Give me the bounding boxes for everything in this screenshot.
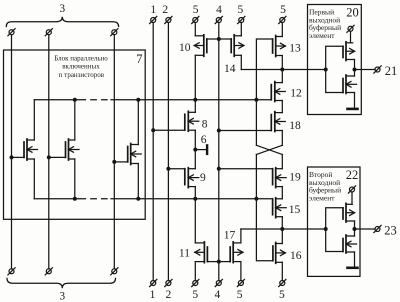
junction cross wire on drain bus: [254, 98, 258, 102]
junction T2 gate: [47, 155, 51, 159]
wire VT17 gate lead to net 4: [219, 261, 230, 263]
terminal 4 top: [215, 16, 222, 23]
transistor VT9: [185, 168, 199, 188]
wire net 4 rail: [218, 23, 220, 281]
wire VT16 source drop to terminal: [281, 262, 283, 280]
terminal 1 top: [150, 16, 157, 23]
svg-text:5: 5: [279, 289, 285, 301]
svg-text:23: 23: [384, 224, 397, 238]
block 7 box (Блок параллельно включенных n транзисторов): [4, 50, 146, 219]
wire VT13 gate lead to cross wire: [256, 39, 272, 145]
terminal 3f bottom: [111, 268, 118, 275]
svg-text:5: 5: [237, 289, 243, 301]
svg-text:11: 11: [179, 247, 190, 259]
buffer box 20 (Первый выходной буферный элемент): [308, 5, 362, 115]
svg-text:16: 16: [290, 250, 302, 262]
wire VT8 drain riser: [194, 100, 196, 113]
terminal 4 bottom: [215, 279, 222, 286]
svg-text:10: 10: [179, 42, 191, 54]
wire VT15 source down to node B: [281, 217, 283, 229]
wire T2 drain riser: [74, 100, 76, 140]
junction T3 source on bus: [136, 197, 140, 201]
buffer box 22 (Второй выходной буферный элемент): [308, 167, 361, 276]
terminal 2 bottom: [165, 279, 172, 286]
wire gate net a (rail x=11.5): [11, 35, 13, 269]
terminal 2 top: [165, 16, 172, 23]
transistor VT14: [231, 35, 244, 57]
terminal 3e bottom: [45, 268, 52, 275]
wire VT8 source to VT9 drain: [194, 130, 196, 169]
svg-text:элемент: элемент: [309, 193, 335, 202]
junction T3 gate: [112, 160, 116, 164]
svg-text:20: 20: [346, 5, 359, 19]
junction T2 source on bus: [73, 197, 77, 201]
terminal 23: [374, 225, 381, 232]
svg-text:12: 12: [290, 87, 302, 99]
wire VT17 drain riser to node B: [240, 229, 242, 243]
junction T2 drain on bus: [73, 98, 77, 102]
svg-text:5: 5: [238, 4, 244, 16]
junction buffer 22 input: [324, 227, 328, 231]
svg-text:1: 1: [150, 289, 156, 301]
wire VT18 source down to crossover: [281, 131, 283, 146]
wire T3 gate lead: [114, 161, 127, 163]
svg-text:3: 3: [59, 3, 65, 15]
transistor buffer 20 lower: [343, 75, 357, 94]
wire VT19 source to VT15 drain: [281, 187, 283, 199]
wire net 1 rail: [152, 23, 154, 281]
svg-text:19: 19: [289, 171, 301, 183]
wire T2 source drop: [74, 159, 76, 199]
wire buffer 22 lower source: [354, 252, 356, 267]
wire VT17 source drop to terminal: [240, 262, 242, 281]
node 6 terminal bar: [206, 145, 208, 154]
wire VT18 gate lead to net 4: [219, 130, 271, 132]
wire buffer 20 supply stem: [350, 31, 352, 43]
wire T1 drain riser: [33, 100, 35, 140]
terminal 5f bottom: [279, 279, 286, 286]
wire T3 drain riser: [137, 100, 139, 145]
junction VT8 gate on net 1: [151, 128, 155, 132]
svg-text:14: 14: [224, 63, 236, 75]
transistor VT15: [273, 198, 287, 218]
wire T1 gate lead: [12, 156, 25, 158]
wire VT11 source drop to terminal: [194, 262, 196, 281]
junction node A at VT13 source / VT12 drain: [280, 68, 284, 72]
svg-text:13: 13: [289, 42, 301, 54]
wire buffer 20 inverter mid: [354, 60, 356, 77]
transistor VT11: [195, 242, 208, 263]
transistor VT8: [185, 111, 199, 131]
terminal 3c top: [111, 29, 118, 36]
svg-text:2: 2: [162, 4, 168, 16]
junction cross net on source bus: [254, 197, 258, 201]
junction node 6 tap: [193, 148, 197, 152]
terminal 5a top: [192, 16, 199, 23]
wire VT11 gate lead to net 4: [207, 261, 218, 263]
transistor VT18: [271, 112, 285, 132]
wire VT19 gate lead to net 4: [219, 168, 273, 170]
wire node 6 stub: [195, 149, 206, 151]
transistor buffer 22 lower: [343, 235, 357, 253]
wire VT8 gate lead to net 1: [153, 129, 185, 131]
svg-text:элемент: элемент: [309, 31, 335, 40]
wire 5c stem to VT13 drain: [281, 23, 283, 37]
terminal 5c top: [279, 16, 286, 23]
wire 5b stem to VT14 drain: [240, 23, 242, 36]
wire node A line (VT14/VT13 sources, VT12 drain, to buffer 20 input): [241, 69, 325, 71]
junction gates VT10/VT14 on net 4: [217, 37, 221, 41]
transistor VT13: [273, 36, 286, 57]
terminal 5b top: [238, 16, 245, 23]
terminal 3b top: [45, 29, 52, 36]
terminal 3a top: [8, 29, 15, 36]
transistor VT19: [273, 168, 287, 188]
transistor buffer 20 upper: [343, 42, 355, 61]
svg-text:6: 6: [201, 134, 207, 146]
svg-text:4: 4: [215, 289, 221, 301]
junction gates VT11/VT17 on net 4: [217, 260, 221, 264]
wire VT10 source to drain bus: [194, 55, 196, 100]
junction node B at VT15 source / VT16 drain: [280, 227, 284, 231]
svg-text:n транзисторов: n транзисторов: [59, 71, 105, 79]
wire buffer 20 output line: [355, 69, 376, 71]
wire cross net down segment (to VT16 gate): [256, 155, 273, 261]
wire VT16 drain riser to node B: [281, 229, 283, 244]
svg-text:5: 5: [193, 4, 199, 16]
svg-text:включенных: включенных: [62, 63, 100, 71]
svg-text:2: 2: [166, 289, 172, 301]
transistor VT17: [230, 242, 243, 263]
wire 5a stem to VT10 drain: [194, 23, 196, 36]
svg-text:3: 3: [59, 291, 65, 302]
svg-text:17: 17: [224, 230, 236, 242]
transistor T1 (block): [24, 139, 38, 160]
wire T2 gate lead: [49, 156, 66, 158]
junction T1 gate: [10, 155, 14, 159]
wire source bus (node to gate of VT15): [34, 198, 271, 200]
junction buffer 20 output: [353, 68, 357, 72]
terminal 5 inside buffer 22: [348, 186, 355, 193]
wire VT9 gate lead to net 2: [168, 168, 184, 170]
wire VT14 gate lead: [219, 38, 231, 40]
junction T3 drain on bus: [136, 98, 140, 102]
ground bar buffer 20: [348, 108, 358, 111]
terminal 3d bottom: [8, 268, 15, 275]
wire gate net b (rail x=48.8): [48, 35, 50, 269]
junction buffer 22 output: [353, 227, 357, 231]
transistor buffer 22 upper: [343, 203, 355, 222]
svg-text:4: 4: [216, 4, 222, 16]
wire node B line (VT17/VT15 sources, VT16 drain, to buffer 22 input): [241, 228, 326, 230]
wire T3 source drop: [137, 164, 139, 199]
brace 3 bottom: [7, 278, 116, 288]
wire T1 source drop: [33, 159, 35, 199]
svg-text:5: 5: [192, 289, 198, 301]
wire VT9 source to VT11 drain: [194, 187, 196, 243]
transistor VT16: [273, 243, 286, 264]
terminal 5 inside buffer 20: [347, 25, 354, 32]
svg-text:15: 15: [289, 204, 301, 216]
junction VT19 gate on net 4: [217, 167, 221, 171]
junction buffer 20 input: [324, 68, 328, 72]
wire VT19 drain riser to crossover: [281, 155, 283, 169]
wire gate net c (rail x=114.3): [113, 35, 115, 269]
wire drain bus (node to gate of VT12): [34, 99, 271, 101]
wire VT12 source to VT18 drain: [281, 101, 283, 113]
svg-text:9: 9: [200, 172, 206, 184]
brace 3 top: [6, 17, 118, 27]
terminal 21: [374, 66, 381, 73]
wire buffer 20 gate loop: [326, 46, 343, 92]
svg-text:7: 7: [136, 52, 142, 66]
wire VT12 drain riser to node A: [281, 70, 283, 83]
terminal 5d bottom: [192, 279, 199, 286]
wire buffer 22 gate loop: [326, 208, 343, 252]
svg-text:Блок параллельно: Блок параллельно: [54, 55, 108, 63]
wire crossover diagonal left-to-right: [256, 145, 282, 154]
wire buffer 22 supply stem: [351, 192, 353, 204]
wire crossover diagonal right-to-left: [256, 145, 282, 154]
ground bar buffer 22: [348, 266, 358, 269]
junction VT18 gate on net 4: [217, 129, 221, 133]
svg-text:22: 22: [346, 168, 359, 182]
svg-text:21: 21: [385, 64, 398, 78]
svg-text:5: 5: [280, 4, 286, 16]
wire VT14 source down to node A line: [240, 55, 242, 69]
wire VT10 gate lead: [207, 38, 219, 40]
wire buffer 22 output line: [355, 228, 376, 230]
svg-text:18: 18: [289, 120, 301, 132]
transistor T3 (block): [128, 144, 142, 165]
svg-text:1: 1: [150, 4, 156, 16]
transistor VT10: [194, 35, 207, 57]
terminal 5e bottom: [237, 279, 244, 286]
wire net 2 rail: [167, 23, 169, 281]
wire buffer 20 lower source: [354, 93, 356, 108]
junction VT9 gate on net 2: [166, 167, 170, 171]
terminal 1 bottom: [150, 279, 157, 286]
junction VT10 source / VT8 drain on bus: [193, 98, 197, 102]
junction VT9 source on source bus: [193, 197, 197, 201]
svg-text:8: 8: [202, 118, 208, 130]
transistor T2 (block): [66, 139, 80, 160]
wire VT13 source down to node A: [281, 56, 283, 70]
wire buffer 22 inverter mid: [354, 221, 356, 236]
transistor VT12: [271, 82, 285, 102]
